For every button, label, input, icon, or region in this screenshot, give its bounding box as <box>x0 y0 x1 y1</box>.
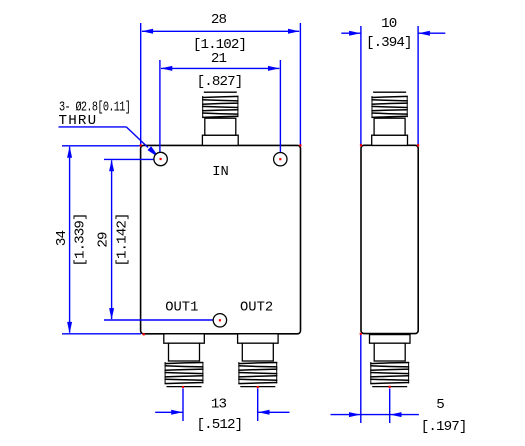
dim 5 [.197] extension lines <box>360 335 362 423</box>
svg-text:[1.142]: [1.142] <box>114 213 130 266</box>
svg-text:21: 21 <box>211 51 227 67</box>
dim 5 [.197] dimension line <box>331 414 419 416</box>
red CAD endpoint dots <box>160 158 162 160</box>
svg-text:29: 29 <box>95 232 111 248</box>
IN connector (front top SMA) threads <box>202 96 238 117</box>
dim 28 [1.102] dimension line <box>142 30 299 32</box>
OUT2 connector (front bottom SMA) threads <box>238 362 277 384</box>
svg-text:OUT2: OUT2 <box>240 301 273 316</box>
dim 29 [1.142] dimension line <box>111 160 113 319</box>
dim 29 [1.142] extension lines <box>104 158 154 160</box>
svg-text:34: 34 <box>54 231 70 247</box>
OUT2 connector (front bottom SMA) <box>238 334 279 387</box>
dim 10 [.394] dimension line <box>341 32 361 34</box>
dim 13 [.512] extension lines <box>182 388 184 421</box>
dim 34 [1.339] dimension line <box>69 147 71 333</box>
svg-text:OUT1: OUT1 <box>165 301 198 316</box>
mounting hole top-right <box>274 153 287 166</box>
leader line <box>59 126 127 128</box>
svg-text:10: 10 <box>381 16 397 32</box>
svg-text:[.197]: [.197] <box>421 419 467 435</box>
svg-text:13: 13 <box>211 397 227 413</box>
dim 34 [1.339] extension lines <box>62 145 140 147</box>
side view top SMA connector <box>372 92 408 145</box>
svg-text:28: 28 <box>211 12 227 28</box>
dim 21 [.827] extension lines <box>159 60 161 159</box>
mounting hole top-left <box>154 152 167 165</box>
IN connector (front top SMA) <box>202 92 238 145</box>
leader arrowhead <box>148 146 160 158</box>
svg-text:IN: IN <box>212 165 229 180</box>
dim 10 [.394] extension lines <box>360 26 362 145</box>
OUT1 connector (front bottom SMA) <box>164 334 205 387</box>
mounting hole bottom-centre <box>213 314 226 327</box>
svg-text:[.827]: [.827] <box>197 74 243 90</box>
side view top SMA connector threads <box>371 96 407 117</box>
OUT1 connector (front bottom SMA) threads <box>165 362 204 384</box>
svg-text:[.512]: [.512] <box>197 417 243 433</box>
dim 21 [.827] dimension line <box>161 67 279 69</box>
svg-text:5: 5 <box>436 397 444 413</box>
dim 13 [.512] dimension line <box>155 411 183 413</box>
svg-text:[1.339]: [1.339] <box>72 213 88 266</box>
side view body outline <box>361 145 418 333</box>
side view bottom SMA connector threads <box>370 362 409 384</box>
side view bottom SMA connector <box>370 335 411 387</box>
front view body outline <box>141 145 301 333</box>
dim 28 [1.102] extension lines <box>140 23 142 145</box>
svg-text:[.394]: [.394] <box>366 35 412 51</box>
